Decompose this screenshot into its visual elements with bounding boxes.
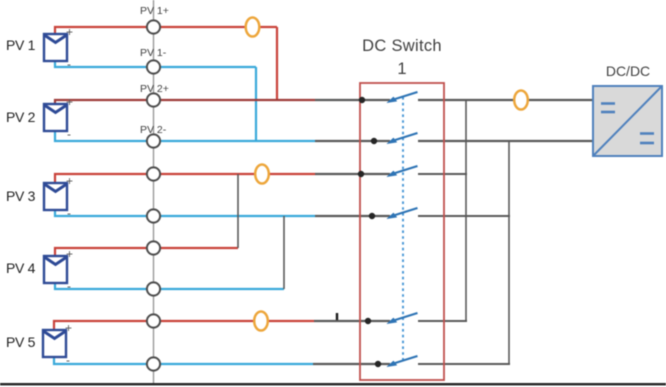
svg-text:+: +: [66, 25, 73, 39]
svg-text:+: +: [66, 174, 73, 188]
svg-text:PV 1: PV 1: [6, 37, 36, 53]
svg-text:-: -: [67, 206, 71, 220]
svg-text:1: 1: [397, 60, 406, 78]
svg-text:PV 1-: PV 1-: [140, 47, 167, 59]
svg-text:DC Switch: DC Switch: [362, 37, 442, 55]
svg-text:-: -: [67, 279, 71, 293]
svg-text:+: +: [66, 95, 73, 109]
svg-text:+: +: [66, 247, 73, 261]
svg-text:PV 1+: PV 1+: [140, 5, 169, 17]
svg-text:-: -: [67, 57, 71, 71]
svg-text:PV 3: PV 3: [6, 188, 36, 204]
svg-text:PV 2+: PV 2+: [140, 83, 169, 95]
svg-text:+: +: [65, 321, 72, 335]
svg-text:PV 5: PV 5: [6, 334, 36, 350]
svg-text:-: -: [67, 127, 71, 141]
svg-text:PV 2: PV 2: [6, 109, 36, 125]
svg-text:DC/DC: DC/DC: [606, 63, 650, 79]
svg-text:-: -: [66, 353, 70, 367]
svg-text:PV 2-: PV 2-: [140, 124, 167, 136]
svg-text:PV 4: PV 4: [6, 260, 36, 276]
